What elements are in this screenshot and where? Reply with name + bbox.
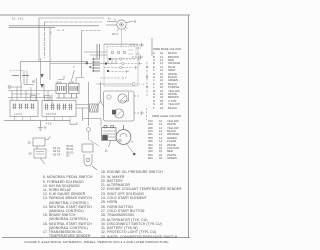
wire: vertical x20.5 [20, 61, 22, 82]
wire: vertical x81.5 [81, 31, 83, 78]
pointer arrow to relay [71, 70, 75, 82]
svg-text:7: 7 [73, 65, 75, 69]
svg-text:f: f [144, 83, 145, 87]
svg-text:AC C: AC C [112, 32, 118, 36]
terminal strip TB1 [92, 44, 100, 72]
right parts list [101, 170, 191, 239]
lower-middle component [82, 144, 97, 170]
inline connector circle [87, 128, 91, 132]
drops from boxes to ground bus [15, 117, 71, 121]
left parts list [43, 175, 98, 238]
svg-text:B I: B I [108, 18, 111, 21]
wire: bus y63.5 [50, 63, 116, 65]
tiny glyph columns [53, 145, 74, 158]
connector symbols right [130, 38, 152, 59]
battery [102, 126, 117, 141]
left wiring mesh [8, 58, 56, 106]
wire: lead y84 with connector [96, 83, 132, 85]
diagonal to battery area [90, 140, 100, 146]
page frame top border [0, 14, 190, 16]
fuse bars [12, 75, 29, 77]
dark meter blob [112, 110, 116, 115]
wire: bus y61 [21, 60, 89, 62]
battery label 11 [109, 142, 111, 148]
outer panel box [104, 44, 138, 86]
battery minus symbol [38, 121, 43, 131]
svg-text:15: 15 [28, 141, 32, 145]
vertical cluster [97, 44, 100, 58]
svg-text:B: B [134, 20, 136, 24]
wire: bus y30.5 [82, 30, 101, 32]
wire: vertical x152 [151, 38, 153, 56]
wire color code tables [153, 47, 181, 111]
relay K2 [56, 84, 79, 99]
wire: vertical x44.5 [44, 22, 46, 58]
terminal squares [86, 62, 91, 68]
svg-text:N3 C4: N3 C4 [53, 153, 61, 156]
lower-left boxes [33, 137, 50, 165]
wire: vertical x39 [38, 18, 40, 61]
key switch U1 [106, 19, 133, 32]
svg-text:11: 11 [105, 149, 108, 153]
wire: left drop to battery [83, 119, 101, 127]
relay K1 [56, 84, 67, 99]
wire: vertical x88.5 [88, 82, 90, 126]
leads from SW-B to right [76, 105, 89, 109]
alternator circle [116, 125, 131, 144]
page frame right border [188, 15, 190, 238]
svg-text:86 85: 86 85 [57, 82, 63, 84]
switch box SW-B [42, 101, 76, 117]
wire: dashed bus y22 [45, 21, 103, 23]
wire: bus y25.8 [9, 25, 99, 27]
diode arrow 2 [40, 84, 44, 88]
alternator pointer dot [133, 153, 136, 156]
ground bus [4, 108, 83, 124]
switch box SW-A [10, 101, 38, 117]
dashed jumper y70.5 [10, 70, 24, 72]
svg-text:TB: TB [85, 63, 89, 66]
wire: top bus y18 [39, 17, 104, 19]
wire: bus y27.3 [9, 26, 55, 28]
svg-text:1:: 1: [50, 31, 52, 35]
connector plugs above switch boxes [31, 96, 51, 101]
diode arrow 1 [40, 74, 44, 78]
wire: vertical x88.5 lower [88, 132, 90, 141]
instrument cluster box [104, 91, 135, 121]
svg-text:B-: B- [44, 126, 47, 130]
svg-text:5 6 7 8 9: 5 6 7 8 9 [46, 113, 56, 116]
svg-text:4 5 6: 4 5 6 [46, 123, 52, 126]
svg-text:6: 6 [132, 140, 134, 144]
svg-text:- 1 - - 4: - 1 - - 4 [56, 29, 64, 32]
small dial [107, 95, 111, 99]
gauge circle 1 [118, 94, 127, 103]
svg-text:M2: M2 [32, 81, 36, 84]
wire: double vertical x24 x27 [24, 71, 34, 85]
leads from cluster [120, 92, 144, 115]
svg-text:1 2 3 4: 1 2 3 4 [14, 113, 22, 116]
wire: vertical x100.5 with fork [98, 82, 104, 106]
wire: vertical x50 [49, 27, 51, 80]
junction dots [105, 58, 111, 72]
svg-text:16: 16 [29, 152, 33, 156]
svg-text:30 87: 30 87 [69, 82, 75, 84]
page frame bottom border [2, 237, 190, 239]
dashed relay box with contacts [84, 30, 141, 64]
dashed sensor column right [146, 62, 148, 120]
svg-text:B7: B7 [67, 155, 71, 158]
figure caption [0, 240, 193, 244]
wire: corner x76 y77.5 [58, 75, 84, 83]
horn relay hatched block [90, 104, 99, 112]
svg-text:5 1 . 1 4 1: 5 1 . 1 4 1 [12, 16, 24, 20]
coil curl [8, 86, 11, 89]
leads to right from terminal area [96, 57, 142, 84]
gauge circle 2 [114, 109, 123, 118]
